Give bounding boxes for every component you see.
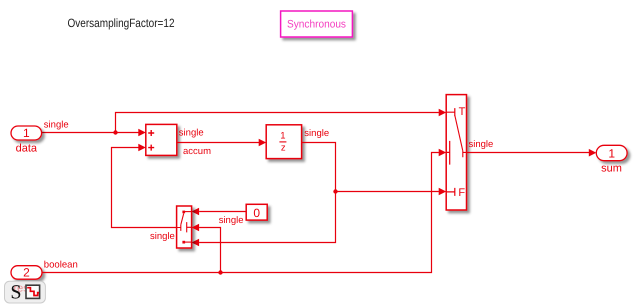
svg-text:0: 0 bbox=[253, 206, 260, 220]
arrowhead into switch F input bbox=[439, 188, 447, 196]
wire: branch up to switch T input bbox=[116, 113, 439, 133]
svg-text:1: 1 bbox=[23, 126, 30, 140]
top port mark bbox=[185, 211, 191, 213]
wire: data -> adder (with branch junction) bbox=[42, 132, 139, 134]
svg-text:OversamplingFactor=12: OversamplingFactor=12 bbox=[68, 16, 175, 30]
wire: delay-switch out -> adder input 2 bbox=[112, 148, 177, 228]
arrowhead into switch T input bbox=[439, 109, 447, 117]
svg-text:accum: accum bbox=[183, 146, 211, 157]
junction node on data wire bbox=[113, 130, 117, 134]
plus sign input 2 bbox=[148, 145, 154, 151]
arrowhead into outport bbox=[589, 149, 597, 157]
arrowhead into delay-switch control (pointing left) bbox=[192, 224, 200, 232]
output port mark bbox=[463, 151, 467, 157]
control port mark bbox=[446, 141, 449, 165]
wire: unit delay out -> down -> delay-switch bottom input bbox=[199, 143, 335, 243]
svg-text:z: z bbox=[281, 143, 286, 154]
control port mark bbox=[187, 222, 192, 232]
F port mark bbox=[446, 188, 454, 196]
svg-text:sum: sum bbox=[601, 162, 622, 174]
arrowhead into unit delay bbox=[259, 139, 267, 147]
T port mark bbox=[446, 108, 454, 116]
arrowhead into delay-switch bottom input (pointing left) bbox=[192, 239, 200, 247]
svg-text:T: T bbox=[459, 106, 466, 118]
arrowhead into switch control input bbox=[439, 149, 447, 157]
junction node on feedback wire bbox=[333, 189, 337, 193]
svg-text:single: single bbox=[150, 231, 175, 242]
svg-text:single: single bbox=[44, 119, 69, 130]
wire: junction -> switch F input bbox=[336, 191, 439, 193]
svg-text:Synchronous: Synchronous bbox=[287, 19, 346, 31]
svg-text:F: F bbox=[458, 187, 465, 199]
inport 2 (reset) bbox=[11, 266, 42, 280]
plus sign input 1 bbox=[148, 130, 154, 136]
wire: constant 0 -> delay-switch top input bbox=[199, 211, 246, 213]
svg-text:single: single bbox=[469, 139, 494, 150]
delay-enable switch block (mirrored switch) bbox=[177, 206, 192, 248]
svg-text:boolean: boolean bbox=[44, 259, 78, 270]
svg-text:2: 2 bbox=[23, 266, 30, 280]
svg-text:1: 1 bbox=[608, 146, 615, 160]
outport 1 (sum) bbox=[596, 145, 627, 174]
wire: boolean -> switch control (with branch) bbox=[42, 153, 439, 273]
arrowhead into adder input 1 bbox=[138, 129, 146, 137]
svg-text:single: single bbox=[179, 128, 204, 139]
junction node on boolean wire bbox=[218, 270, 222, 274]
arrowhead into delay-switch top input (pointing left) bbox=[192, 208, 200, 216]
adder block (Add) bbox=[146, 124, 177, 155]
constant block 0 bbox=[246, 204, 267, 220]
svg-text:single: single bbox=[219, 215, 244, 226]
bottom port mark bbox=[185, 241, 191, 243]
svg-text:single: single bbox=[304, 128, 329, 139]
wire: branch up to delay-switch control input bbox=[199, 228, 220, 273]
output port mark bbox=[177, 225, 181, 231]
lever bbox=[181, 214, 184, 225]
unit delay block 1/z bbox=[266, 125, 301, 159]
wire: adder out -> unit delay bbox=[177, 142, 259, 144]
lever bbox=[455, 115, 463, 151]
staircase icon bbox=[26, 285, 40, 298]
sample time badge bbox=[5, 281, 46, 303]
annotation box: Synchronous bbox=[281, 11, 353, 37]
wire: switch out -> outport sum bbox=[467, 152, 589, 154]
svg-text:1: 1 bbox=[280, 131, 285, 142]
svg-text:data: data bbox=[16, 143, 38, 155]
switch block (T/F) bbox=[446, 95, 466, 210]
arrowhead into adder input 2 bbox=[138, 144, 146, 152]
inport 1 (data) bbox=[11, 126, 42, 155]
